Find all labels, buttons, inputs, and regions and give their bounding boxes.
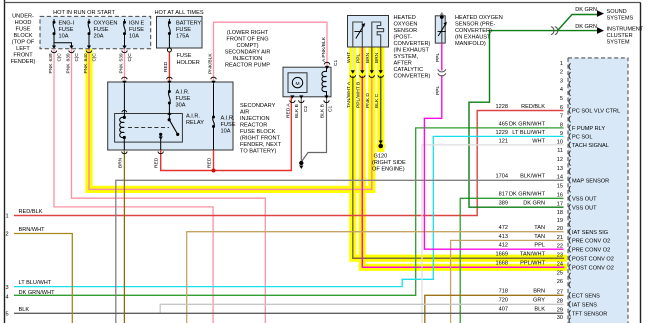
svg-text:WHT: WHT (532, 138, 545, 144)
svg-text:BLK: BLK (534, 307, 545, 313)
svg-text:TAN/WHT A: TAN/WHT A (346, 81, 352, 108)
svg-text:DK GRN/WHT: DK GRN/WHT (509, 192, 546, 198)
svg-text:1: 1 (560, 61, 563, 67)
svg-text:C|C: C|C (56, 53, 62, 62)
svg-text:SOUND: SOUND (607, 9, 627, 15)
svg-text:(POST-: (POST- (394, 35, 413, 41)
svg-text:PC SOL: PC SOL (572, 135, 593, 141)
svg-text:OXYGEN: OXYGEN (394, 22, 418, 28)
svg-text:POST CONV O2: POST CONV O2 (572, 256, 614, 262)
svg-text:PPL: PPL (356, 53, 362, 63)
svg-text:22: 22 (557, 244, 563, 250)
svg-text:817: 817 (499, 192, 508, 198)
svg-text:RELAY: RELAY (186, 120, 204, 126)
svg-text:639: 639 (48, 53, 54, 61)
svg-text:11: 11 (557, 148, 563, 154)
svg-text:(LOWER RIGHT: (LOWER RIGHT (227, 30, 269, 36)
svg-text:UNDER-: UNDER- (12, 14, 34, 20)
svg-text:FENDER): FENDER) (11, 59, 36, 65)
svg-text:PRE CONV O2: PRE CONV O2 (572, 247, 610, 253)
svg-text:HOT IN RUN OR START: HOT IN RUN OR START (53, 10, 115, 16)
svg-text:ECT SENS: ECT SENS (572, 293, 600, 299)
svg-text:FUSE: FUSE (94, 27, 109, 33)
svg-text:PPL: PPL (435, 85, 441, 95)
svg-text:HEATED: HEATED (394, 15, 416, 21)
svg-text:19: 19 (557, 218, 563, 224)
svg-text:TFT SENSOR: TFT SENSOR (572, 311, 607, 317)
svg-text:413: 413 (499, 234, 508, 240)
svg-text:(RIGHT FRONT: (RIGHT FRONT (240, 136, 281, 142)
svg-text:SENSOR: SENSOR (394, 28, 418, 34)
svg-text:29: 29 (557, 308, 563, 314)
svg-text:LEFT: LEFT (16, 46, 30, 52)
svg-text:RED: RED (163, 61, 169, 72)
svg-text:REACTOR PUMP: REACTOR PUMP (225, 63, 270, 69)
svg-text:10A: 10A (129, 34, 139, 40)
svg-text:INSTRUMENT: INSTRUMENT (607, 27, 644, 33)
svg-text:389: 389 (499, 201, 508, 207)
svg-text:28: 28 (557, 299, 563, 305)
svg-text:BRN: BRN (118, 157, 124, 168)
svg-text:HOLDER: HOLDER (177, 60, 200, 66)
svg-text:POST CONV O2: POST CONV O2 (572, 265, 614, 271)
svg-text:3: 3 (560, 78, 563, 84)
svg-text:PPL/WHT B: PPL/WHT B (356, 82, 362, 108)
svg-text:472: 472 (499, 225, 508, 231)
svg-text:2: 2 (5, 232, 8, 238)
svg-text:DK GRN/WHT: DK GRN/WHT (19, 290, 56, 296)
svg-text:RED/BLK: RED/BLK (521, 104, 545, 110)
svg-text:FUSE: FUSE (16, 27, 31, 33)
svg-text:PNK: PNK (65, 63, 71, 74)
svg-text:3: 3 (5, 285, 8, 291)
svg-text:FUSE: FUSE (59, 27, 74, 33)
svg-text:BATTERY: BATTERY (176, 21, 202, 27)
svg-text:PPL: PPL (435, 52, 441, 62)
svg-text:FUSE: FUSE (177, 53, 192, 59)
svg-text:18: 18 (557, 210, 563, 216)
svg-text:REACTOR: REACTOR (240, 123, 267, 129)
svg-text:121: 121 (499, 138, 508, 144)
svg-text:INJECTION: INJECTION (240, 116, 270, 122)
svg-text:12: 12 (557, 157, 563, 163)
svg-text:BRN: BRN (374, 52, 380, 63)
svg-text:720: 720 (499, 298, 508, 304)
svg-text:OXYGEN: OXYGEN (94, 21, 118, 27)
svg-text:TAN/WHT: TAN/WHT (520, 252, 546, 258)
svg-text:4: 4 (560, 87, 563, 93)
svg-text:ENG-I: ENG-I (59, 21, 75, 27)
svg-text:14: 14 (557, 175, 563, 181)
svg-text:PC SOL VLV CTRL: PC SOL VLV CTRL (572, 109, 620, 115)
svg-text:1228: 1228 (496, 104, 508, 110)
svg-text:G120: G120 (374, 154, 388, 160)
svg-text:FUSE: FUSE (221, 122, 236, 128)
svg-text:SYSTEM: SYSTEM (607, 40, 630, 46)
svg-text:20A: 20A (94, 34, 104, 40)
svg-text:8: 8 (560, 122, 563, 128)
svg-text:412: 412 (499, 243, 508, 249)
svg-text:HEATED OXYGEN: HEATED OXYGEN (455, 15, 503, 21)
svg-text:10: 10 (557, 139, 563, 145)
svg-text:AFTER: AFTER (394, 61, 412, 67)
svg-text:7: 7 (560, 114, 563, 120)
svg-text:DK GRN: DK GRN (575, 24, 597, 30)
svg-text:BLK/WHT: BLK/WHT (520, 174, 545, 180)
svg-text:6: 6 (560, 105, 563, 111)
svg-text:30A: 30A (176, 103, 186, 109)
svg-text:26: 26 (557, 279, 563, 285)
svg-text:(RIGHT SIDE: (RIGHT SIDE (372, 160, 406, 166)
svg-text:718: 718 (499, 289, 508, 295)
svg-text:1668: 1668 (496, 261, 508, 267)
svg-text:465: 465 (499, 121, 508, 127)
svg-text:13: 13 (557, 166, 563, 172)
svg-text:1704: 1704 (496, 174, 508, 180)
svg-text:PPL: PPL (534, 243, 545, 249)
svg-text:OF ENGINE): OF ENGINE) (372, 167, 405, 173)
svg-text:10A: 10A (59, 34, 69, 40)
svg-text:1229: 1229 (496, 130, 508, 136)
svg-text:PNK: PNK (83, 63, 89, 74)
svg-text:17: 17 (557, 202, 563, 208)
svg-text:CONVERTER): CONVERTER) (455, 28, 492, 34)
svg-text:GRY: GRY (533, 298, 545, 304)
svg-text:PNK/BLK: PNK/BLK (207, 53, 213, 74)
svg-text:IGN E: IGN E (129, 21, 144, 27)
svg-text:BRN/WHT: BRN/WHT (19, 227, 46, 233)
svg-text:SYSTEM,: SYSTEM, (394, 54, 419, 60)
svg-text:MAP SENSOR: MAP SENSOR (572, 178, 609, 184)
svg-text:27: 27 (557, 290, 563, 296)
svg-text:DK GRN: DK GRN (575, 7, 597, 13)
svg-text:BRN: BRN (365, 52, 371, 63)
svg-text:4: 4 (5, 294, 8, 300)
svg-text:IAT SENS: IAT SENS (572, 302, 597, 308)
svg-text:SECONDARY: SECONDARY (240, 103, 276, 109)
svg-text:BLK C: BLK C (374, 93, 380, 108)
svg-text:840: 840 (83, 53, 89, 61)
svg-text:21: 21 (557, 235, 563, 241)
svg-text:A.I.R.: A.I.R. (221, 116, 235, 122)
svg-text:TAN: TAN (534, 234, 545, 240)
svg-text:RED: RED (154, 157, 160, 168)
svg-text:30: 30 (557, 315, 563, 321)
svg-text:SENSOR (PRE-: SENSOR (PRE- (455, 22, 496, 28)
svg-text:A PNK/BLK: A PNK/BLK (321, 36, 327, 62)
svg-text:PPL/WHT: PPL/WHT (520, 261, 545, 267)
svg-text:LT BLU/WHT: LT BLU/WHT (512, 130, 545, 136)
svg-text:C|C: C|C (74, 53, 80, 62)
svg-text:SECONDARY AIR: SECONDARY AIR (225, 50, 271, 56)
svg-text:INJECTION: INJECTION (233, 56, 263, 62)
svg-text:(TOP OF: (TOP OF (12, 40, 35, 46)
svg-text:BLK B: BLK B (319, 104, 325, 118)
svg-text:BLOCK: BLOCK (14, 33, 33, 39)
svg-text:(IN EXHAUST: (IN EXHAUST (455, 35, 491, 41)
svg-text:2: 2 (560, 70, 563, 76)
svg-text:FENDER, NEXT: FENDER, NEXT (240, 142, 282, 148)
svg-text:FUSE: FUSE (176, 27, 191, 33)
svg-text:407: 407 (499, 307, 508, 313)
svg-text:VSS OUT: VSS OUT (572, 205, 597, 211)
svg-text:A.I.R.: A.I.R. (186, 114, 200, 120)
svg-text:9: 9 (560, 131, 563, 137)
svg-text:RED/BLK: RED/BLK (19, 209, 43, 215)
svg-text:TACH SIGNAL: TACH SIGNAL (572, 143, 609, 149)
svg-text:FRONT OF ENG: FRONT OF ENG (226, 37, 268, 43)
svg-text:A.I.R.: A.I.R. (176, 90, 190, 96)
svg-text:PNK: PNK (118, 63, 124, 74)
svg-text:839: 839 (65, 53, 71, 61)
svg-text:FUSE BLOCK: FUSE BLOCK (240, 129, 276, 135)
svg-text:TAN: TAN (534, 225, 545, 231)
svg-text:COMPT): COMPT) (236, 43, 258, 49)
svg-text:FUSE: FUSE (129, 27, 144, 33)
svg-text:FUSE: FUSE (176, 96, 191, 102)
svg-text:539: 539 (118, 53, 124, 61)
svg-text:(IN EXHAUST: (IN EXHAUST (394, 48, 430, 54)
svg-text:C|C: C|C (91, 53, 97, 62)
svg-text:CATALYTIC: CATALYTIC (394, 67, 424, 73)
svg-text:15: 15 (557, 184, 563, 190)
svg-text:175A: 175A (176, 34, 189, 40)
svg-text:IAT SENS SIG: IAT SENS SIG (572, 230, 608, 236)
svg-text:RED: RED (207, 157, 213, 168)
svg-text:WHT: WHT (346, 52, 352, 63)
svg-text:BRN: BRN (533, 289, 545, 295)
svg-text:DK GRN: DK GRN (523, 201, 545, 207)
svg-text:RED A: RED A (285, 103, 291, 118)
svg-text:5: 5 (5, 312, 8, 318)
svg-text:FRONT: FRONT (13, 53, 33, 59)
svg-text:TO BATTERY): TO BATTERY) (240, 149, 277, 155)
svg-text:1669: 1669 (496, 252, 508, 258)
svg-text:PRE CONV O2: PRE CONV O2 (572, 239, 610, 245)
svg-text:10A: 10A (221, 129, 231, 135)
svg-text:1: 1 (5, 214, 8, 220)
svg-text:C|C: C|C (127, 53, 133, 62)
svg-text:20: 20 (557, 226, 563, 232)
svg-text:CONVERTER): CONVERTER) (394, 41, 431, 47)
svg-text:DK GRN/WHT: DK GRN/WHT (509, 121, 546, 127)
svg-text:F PUMP RLY: F PUMP RLY (572, 126, 605, 132)
svg-text:PNK D: PNK D (365, 93, 371, 108)
svg-text:C2: C2 (303, 105, 309, 112)
svg-text:CONVERTER): CONVERTER) (394, 74, 431, 80)
svg-text:C1: C1 (328, 105, 334, 112)
svg-text:CLUSTER: CLUSTER (607, 33, 633, 39)
svg-text:25: 25 (557, 270, 563, 276)
svg-text:PNK: PNK (48, 63, 54, 74)
svg-text:AIR: AIR (240, 110, 249, 116)
svg-text:M: M (295, 81, 299, 87)
svg-text:MANIFOLD): MANIFOLD) (455, 41, 486, 47)
svg-text:24: 24 (557, 262, 563, 268)
svg-text:C1: C1 (333, 59, 339, 66)
svg-text:BLK: BLK (19, 307, 30, 313)
svg-text:VSS OUT: VSS OUT (572, 196, 597, 202)
svg-text:16: 16 (557, 193, 563, 199)
svg-text:SYSTEMS: SYSTEMS (607, 16, 634, 22)
svg-text:HOT AT ALL TIMES: HOT AT ALL TIMES (154, 10, 203, 16)
svg-text:HOOD: HOOD (15, 20, 32, 26)
svg-text:LT BLU/WHT: LT BLU/WHT (19, 280, 52, 286)
svg-text:BLK B: BLK B (294, 104, 300, 118)
svg-text:23: 23 (557, 253, 563, 259)
svg-text:5: 5 (560, 96, 563, 102)
